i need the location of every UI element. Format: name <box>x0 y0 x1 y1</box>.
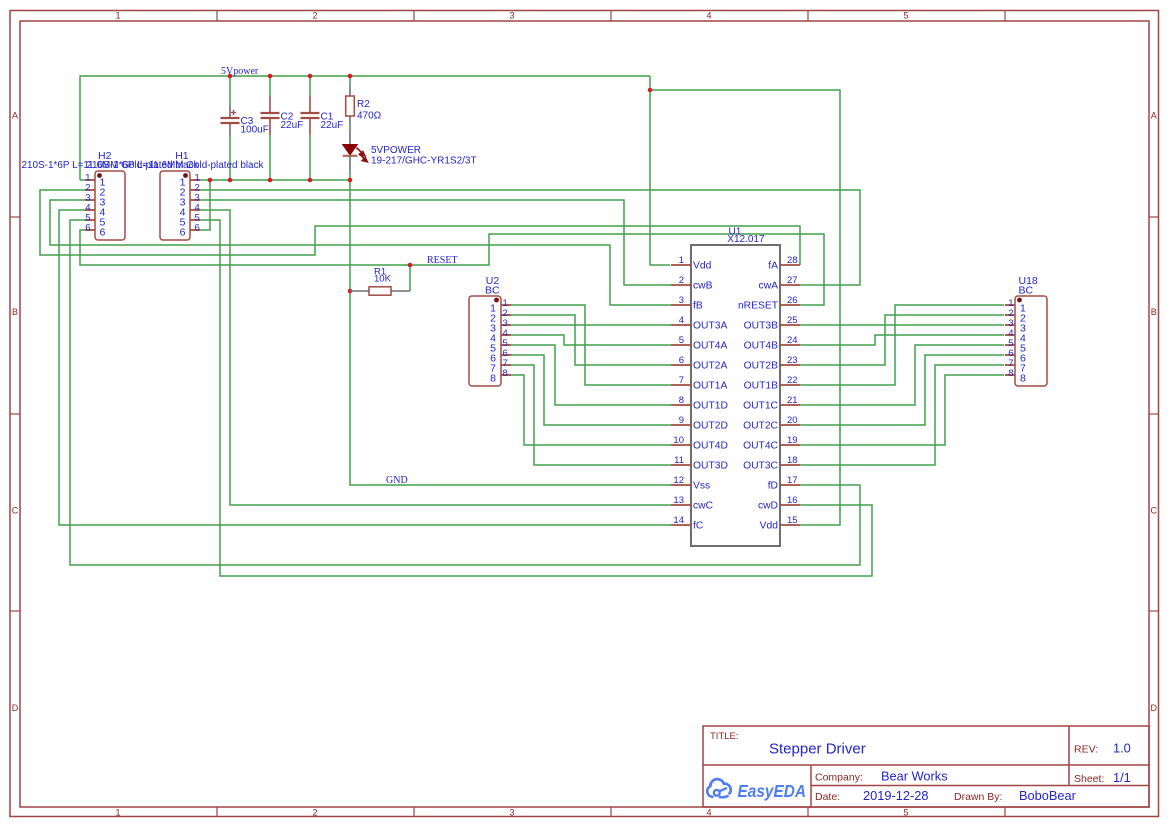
svg-text:16: 16 <box>787 495 798 506</box>
svg-text:4: 4 <box>706 11 711 21</box>
svg-text:Drawn By:: Drawn By: <box>954 791 1002 803</box>
svg-text:6: 6 <box>85 223 90 234</box>
svg-text:OUT2D: OUT2D <box>693 420 728 431</box>
svg-text:BC: BC <box>1019 285 1034 297</box>
svg-text:28: 28 <box>787 255 798 266</box>
wire fD net <box>70 220 860 565</box>
svg-text:OUT2A: OUT2A <box>693 360 727 371</box>
wire OUT1B net <box>800 305 1004 385</box>
svg-text:19-217/GHC-YR1S2/3T: 19-217/GHC-YR1S2/3T <box>371 156 477 167</box>
svg-text:EasyEDA: EasyEDA <box>738 781 807 801</box>
svg-text:8: 8 <box>503 368 508 379</box>
svg-text:B: B <box>1151 307 1157 317</box>
wire OUT3B net <box>800 324 1004 326</box>
svg-text:C: C <box>12 506 19 516</box>
svg-text:5: 5 <box>903 808 908 818</box>
svg-text:100uF: 100uF <box>241 125 269 136</box>
connector H2 210S-1*6P <box>22 150 200 240</box>
svg-text:X12.017: X12.017 <box>727 234 765 245</box>
wire cwC net <box>200 210 671 505</box>
svg-text:Company:: Company: <box>815 772 863 784</box>
svg-text:OUT3C: OUT3C <box>743 460 778 471</box>
svg-text:18: 18 <box>787 455 798 466</box>
wire OUT4D net <box>511 375 671 445</box>
capacitor C1 22uF <box>301 96 344 135</box>
wire OUT1A net <box>511 305 671 385</box>
svg-text:OUT1C: OUT1C <box>743 400 778 411</box>
svg-text:OUT1A: OUT1A <box>693 380 727 391</box>
svg-text:4: 4 <box>706 808 711 818</box>
svg-text:D: D <box>1150 703 1157 713</box>
wire fC net <box>59 210 671 525</box>
junction dots GND rail <box>208 178 413 294</box>
wire OUT2D net <box>511 355 671 425</box>
svg-text:TITLE:: TITLE: <box>710 731 739 742</box>
svg-text:Vss: Vss <box>693 480 710 491</box>
svg-text:22uF: 22uF <box>321 120 344 131</box>
svg-text:B: B <box>12 307 18 317</box>
svg-text:2: 2 <box>312 11 317 21</box>
svg-text:26: 26 <box>787 295 798 306</box>
svg-text:27: 27 <box>787 275 798 286</box>
svg-text:17: 17 <box>787 475 798 486</box>
wire OUT4A net <box>511 335 671 345</box>
svg-text:1: 1 <box>115 11 120 21</box>
wire fB net <box>50 200 671 305</box>
svg-text:OUT4B: OUT4B <box>744 340 778 351</box>
wire fA net <box>40 190 800 265</box>
svg-text:Sheet:: Sheet: <box>1074 773 1104 785</box>
svg-text:OUT3B: OUT3B <box>744 320 778 331</box>
svg-text:cwB: cwB <box>693 280 713 291</box>
svg-text:BoboBear: BoboBear <box>1019 788 1077 803</box>
svg-text:12: 12 <box>673 475 684 486</box>
svg-text:24: 24 <box>787 335 798 346</box>
svg-text:1/1: 1/1 <box>1113 770 1131 785</box>
svg-text:R2: R2 <box>357 99 370 110</box>
svg-text:9: 9 <box>679 415 684 426</box>
svg-text:OUT3A: OUT3A <box>693 320 727 331</box>
svg-text:6: 6 <box>679 355 684 366</box>
svg-text:fD: fD <box>768 480 778 491</box>
wire OUT1C net <box>800 345 1004 405</box>
svg-text:23: 23 <box>787 355 798 366</box>
wire OUT2C net <box>800 355 1004 425</box>
svg-text:11: 11 <box>674 455 684 466</box>
resistor R1 10K <box>350 267 410 296</box>
connector H1 210S-1*6P <box>87 150 265 240</box>
svg-text:BC: BC <box>485 285 500 297</box>
svg-text:fB: fB <box>693 300 703 311</box>
op-amp U1 X12.017 <box>671 227 800 547</box>
svg-text:OUT1B: OUT1B <box>744 380 778 391</box>
svg-text:10: 10 <box>673 435 684 446</box>
svg-text:13: 13 <box>673 495 684 506</box>
svg-text:19: 19 <box>787 435 798 446</box>
svg-text:OUT2C: OUT2C <box>743 420 778 431</box>
wire cwD net <box>200 220 872 576</box>
svg-text:5Vpower: 5Vpower <box>221 66 259 77</box>
svg-text:2019-12-28: 2019-12-28 <box>863 788 928 803</box>
svg-text:3: 3 <box>509 808 514 818</box>
wire RESET net <box>80 230 824 305</box>
wire OUT2B net <box>800 315 1004 365</box>
svg-text:2: 2 <box>679 275 684 286</box>
wire OUT2A net <box>511 315 671 365</box>
svg-text:fA: fA <box>768 260 778 271</box>
svg-text:Date:: Date: <box>815 791 840 803</box>
svg-text:C: C <box>1150 506 1157 516</box>
wire cwA net <box>200 190 860 285</box>
wire 5Vpower net <box>80 76 840 525</box>
wire OUT4C net <box>800 375 1004 445</box>
svg-text:1.0: 1.0 <box>1113 741 1131 756</box>
wire OUT3C net <box>800 365 1004 465</box>
wire OUT3A net <box>511 324 671 326</box>
wire OUT3D net <box>511 365 671 465</box>
svg-text:22uF: 22uF <box>281 120 304 131</box>
svg-text:fC: fC <box>693 520 704 531</box>
svg-text:470Ω: 470Ω <box>357 111 382 122</box>
svg-text:cwA: cwA <box>759 280 779 291</box>
svg-text:6: 6 <box>180 226 186 238</box>
svg-text:6: 6 <box>195 223 200 234</box>
svg-text:OUT2B: OUT2B <box>744 360 778 371</box>
svg-text:RESET: RESET <box>427 255 458 266</box>
svg-text:8: 8 <box>679 395 684 406</box>
svg-text:15: 15 <box>787 515 798 526</box>
svg-text:OUT4D: OUT4D <box>693 440 728 451</box>
svg-text:A: A <box>12 111 18 121</box>
junction dots 5V rail <box>228 74 653 93</box>
wire OUT4B net <box>800 335 1004 345</box>
svg-text:A: A <box>1151 111 1157 121</box>
svg-text:8: 8 <box>1020 373 1026 385</box>
svg-text:21: 21 <box>787 395 798 406</box>
svg-text:8: 8 <box>490 373 496 385</box>
svg-text:20: 20 <box>787 415 798 426</box>
svg-text:7: 7 <box>679 375 684 386</box>
EasyEDA logo <box>707 779 806 801</box>
svg-text:OUT1D: OUT1D <box>693 400 728 411</box>
svg-text:5VPOWER: 5VPOWER <box>371 145 421 156</box>
svg-text:2: 2 <box>312 808 317 818</box>
svg-text:OUT3D: OUT3D <box>693 460 728 471</box>
svg-text:8: 8 <box>1008 368 1013 379</box>
svg-text:6: 6 <box>100 226 106 238</box>
svg-text:Vdd: Vdd <box>760 520 779 531</box>
svg-text:OUT4C: OUT4C <box>743 440 778 451</box>
title block <box>703 726 1149 807</box>
svg-text:OUT4A: OUT4A <box>693 340 727 351</box>
svg-text:1: 1 <box>679 255 684 266</box>
svg-text:5: 5 <box>903 11 908 21</box>
wire cwB net <box>200 200 671 285</box>
connector U18 BC <box>1005 275 1047 386</box>
resistor R2 470ohm <box>346 86 382 127</box>
svg-text:Bear Works: Bear Works <box>881 769 948 784</box>
svg-text:cwC: cwC <box>693 500 714 511</box>
svg-text:D: D <box>12 703 19 713</box>
svg-text:3: 3 <box>679 295 684 306</box>
svg-text:Vdd: Vdd <box>693 260 712 271</box>
svg-text:Stepper Driver: Stepper Driver <box>769 741 866 758</box>
wire OUT1D net <box>511 345 671 405</box>
svg-text:14: 14 <box>673 515 684 526</box>
svg-text:REV:: REV: <box>1074 744 1098 756</box>
svg-text:1: 1 <box>115 808 120 818</box>
svg-text:10K: 10K <box>374 274 392 285</box>
wire R2-LED <box>349 126 351 130</box>
svg-text:GND: GND <box>386 475 408 486</box>
svg-text:cwD: cwD <box>758 500 778 511</box>
wire GND net <box>200 135 671 485</box>
svg-text:5: 5 <box>679 335 684 346</box>
capacitor C3 100uF <box>221 106 269 136</box>
svg-text:25: 25 <box>787 315 798 326</box>
svg-text:3: 3 <box>509 11 514 21</box>
connector U2 BC <box>469 275 511 386</box>
capacitor C2 22uF <box>261 96 304 135</box>
LED D1 5VPOWER 19-217/GHC-YR1S2/3T <box>343 130 477 171</box>
svg-text:22: 22 <box>787 375 798 386</box>
svg-text:210S-1*6P L=11.6MM Gold-plated: 210S-1*6P L=11.6MM Gold-plated black <box>87 160 265 171</box>
svg-text:4: 4 <box>679 315 684 326</box>
svg-text:nRESET: nRESET <box>738 300 779 311</box>
